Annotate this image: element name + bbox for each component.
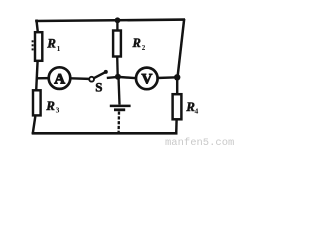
resistor R4 (173, 94, 182, 119)
label R3 (45, 98, 59, 115)
wire left border top segment into R1 (36, 20, 38, 34)
wire top border (35, 20, 185, 21)
wire right junction to R4 (176, 77, 178, 94)
wire battery to bottom border (dotted) (117, 112, 120, 135)
battery cell (110, 106, 131, 110)
wire left border middle segment between R1 and R3 (36, 61, 37, 91)
node top junction for R2 branch (115, 17, 121, 23)
svg-text:3: 3 (56, 106, 60, 115)
svg-text:1: 1 (57, 44, 61, 53)
ammeter A (49, 67, 71, 89)
wire voltmeter to right junction (157, 76, 177, 79)
label R1 (46, 35, 60, 53)
node centre junction (115, 74, 121, 80)
svg-text:2: 2 (142, 44, 146, 52)
wire switch to centre junction (107, 77, 118, 78)
wire R2 to centre junction (116, 57, 119, 77)
resistor R3 (33, 90, 41, 115)
node right junction (174, 74, 180, 80)
svg-text:S: S (95, 79, 102, 94)
svg-text:R: R (132, 36, 141, 50)
resistor R1 (32, 32, 43, 61)
svg-text:R: R (46, 35, 56, 50)
svg-text:V: V (141, 72, 152, 88)
wire centre junction to voltmeter (118, 77, 137, 78)
switch S (89, 70, 108, 82)
resistor R2 (113, 31, 121, 57)
wire bottom border (32, 132, 178, 135)
label R4 (185, 99, 198, 116)
voltmeter V (136, 68, 158, 90)
svg-text:4: 4 (195, 107, 199, 116)
label R2 (132, 36, 146, 52)
svg-text:A: A (54, 71, 65, 87)
wire ammeter to switch (71, 77, 89, 80)
wire centre junction down to battery (119, 77, 120, 105)
wire R4 to bottom border (175, 119, 178, 134)
wire left border bottom segment (33, 116, 36, 134)
svg-text:manfen5.com: manfen5.com (165, 137, 234, 148)
wire top junction to R2 (116, 20, 118, 31)
wire right border upper segment (178, 19, 185, 78)
wire left border to ammeter (36, 77, 50, 80)
svg-text:R: R (45, 98, 55, 113)
